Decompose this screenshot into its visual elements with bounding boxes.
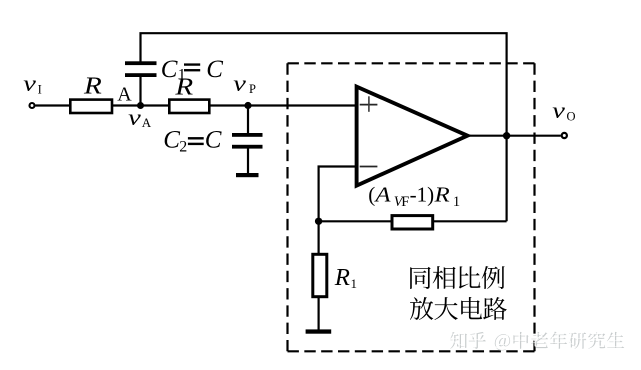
svg-text:2: 2 bbox=[179, 139, 187, 156]
svg-text:P: P bbox=[249, 82, 256, 96]
caption line 1: tong xiang bi li (non-inverting proportional) bbox=[410, 267, 431, 289]
capacitor C1 top plate bbox=[125, 61, 157, 65]
wire: C2 bottom plate down to ground bbox=[247, 148, 249, 174]
svg-text:v: v bbox=[233, 71, 247, 96]
svg-text:A: A bbox=[373, 183, 391, 207]
svg-text:A: A bbox=[117, 83, 132, 105]
svg-text:A: A bbox=[142, 115, 152, 130]
dashed box (left edge) bbox=[286, 63, 288, 351]
capacitor C2 bottom plate bbox=[232, 145, 263, 149]
svg-text:v: v bbox=[128, 105, 142, 130]
watermark: zhihu @zhonglaonian yanjiusheng bbox=[450, 332, 624, 351]
op-amp noninverting input marker (+) bbox=[360, 104, 378, 106]
node A junction dot bbox=[137, 102, 144, 109]
wire: C1 top plate up, across the top, down to output column bbox=[141, 33, 507, 221]
svg-text:R: R bbox=[83, 73, 102, 99]
caption line 2: fang da dian lu (amplifier circuit) bbox=[410, 297, 433, 320]
svg-text:v: v bbox=[552, 98, 566, 123]
wire: feedback node down to resistor R1 bbox=[318, 221, 320, 253]
dashed box (right edge) bbox=[533, 63, 535, 351]
dashed box (bottom edge) bbox=[288, 350, 535, 352]
wire: node vP down to C2 top plate bbox=[247, 106, 249, 134]
capacitor C2 top plate bbox=[232, 133, 263, 137]
node: feedback junction dot bbox=[315, 218, 322, 225]
op-amp inverting input marker (-) bbox=[360, 166, 378, 168]
node vP junction dot bbox=[244, 102, 251, 109]
op-amp U1 (triangle) bbox=[357, 87, 468, 186]
resistor R (second, node A to vP) bbox=[169, 100, 209, 113]
svg-text:O: O bbox=[567, 110, 576, 124]
svg-text:(: ( bbox=[368, 183, 375, 207]
ground symbol below R1 bbox=[306, 329, 332, 333]
wire: node A up to C1 bottom plate bbox=[139, 77, 141, 106]
resistor (AVF-1)R1 (feedback, horizontal) bbox=[392, 216, 433, 229]
terminal vI (open circle) bbox=[30, 103, 35, 108]
svg-text:I: I bbox=[38, 82, 42, 96]
terminal vO (open circle) bbox=[562, 133, 567, 138]
resistor R1 (vertical, to ground) bbox=[313, 254, 327, 296]
capacitor C1 bottom plate bbox=[125, 73, 157, 77]
svg-text:R: R bbox=[433, 183, 450, 207]
dashed box around non-inverting amplifier (top edge) bbox=[288, 62, 535, 64]
svg-text:R: R bbox=[334, 265, 351, 291]
svg-text:C: C bbox=[206, 56, 223, 83]
svg-text:1: 1 bbox=[351, 276, 358, 291]
wire: opamp output to terminal vO bbox=[468, 135, 561, 137]
wire: R1 bottom to ground bbox=[318, 298, 320, 332]
resistor R (input, horizontal) bbox=[70, 100, 112, 113]
svg-text:1: 1 bbox=[453, 194, 460, 210]
wire: opamp inverting input left and down to feedback node bbox=[319, 167, 356, 222]
svg-text:-1): -1) bbox=[410, 183, 435, 207]
wire: main input net vI - R - A - R - vP - opamp noninverting input bbox=[35, 104, 356, 106]
ground symbol below C2 bbox=[236, 173, 259, 177]
node: output junction dot bbox=[503, 132, 510, 139]
svg-text:v: v bbox=[23, 71, 37, 96]
wire: feedback node right to output column bbox=[319, 220, 507, 222]
svg-text:C: C bbox=[205, 127, 222, 154]
svg-text:F: F bbox=[401, 194, 409, 210]
svg-text:R: R bbox=[174, 75, 193, 101]
svg-text:C: C bbox=[163, 127, 180, 154]
